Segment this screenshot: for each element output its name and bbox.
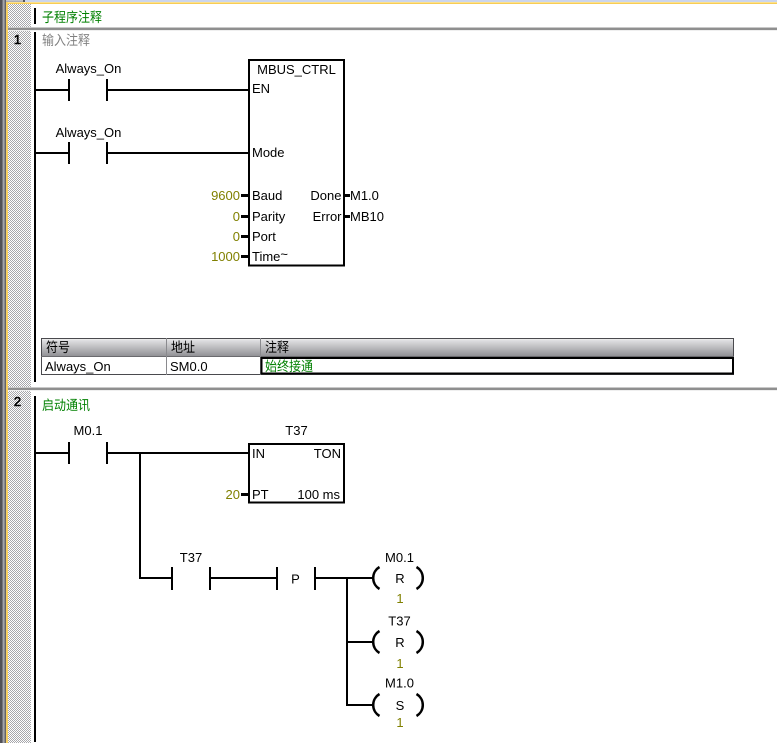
svg-text:EN: EN (252, 81, 270, 96)
wire branch to coil M1.0 (348, 704, 373, 706)
svg-text:Always_On: Always_On (56, 125, 122, 140)
svg-text:1: 1 (396, 715, 403, 730)
svg-text:S: S (396, 698, 405, 713)
svg-text:1000: 1000 (211, 249, 240, 264)
coil M0.1 left parenthesis (373, 567, 379, 589)
wire rail to contact 2 (36, 152, 68, 154)
wire contact T37 to contact P (211, 577, 276, 579)
table header 符号 (46, 340, 69, 353)
symbol table outer border (42, 339, 734, 375)
svg-text:1: 1 (396, 591, 403, 606)
contact T37 left bar (171, 567, 173, 590)
svg-text:100 ms: 100 ms (297, 487, 340, 502)
table header bottom line (41, 356, 734, 357)
svg-text:2: 2 (14, 394, 21, 409)
coil M1.0 right parenthesis (417, 694, 423, 716)
svg-text:R: R (395, 571, 404, 586)
Parity pin tick (241, 215, 248, 218)
svg-text:1: 1 (14, 32, 21, 47)
table column line 1 (166, 338, 167, 375)
svg-text:M0.1: M0.1 (74, 423, 103, 438)
wire contact P to coil M0.1 (316, 577, 373, 579)
wire contact M0.1 to IN pin (108, 452, 248, 454)
wire branch to coil T37 (348, 641, 373, 643)
coil M1.0 left parenthesis (373, 694, 379, 716)
network 1 left power rail (34, 32, 36, 382)
svg-text:Done: Done (310, 188, 341, 203)
network 2 left power rail (34, 396, 36, 742)
symbol table header background (42, 339, 734, 357)
selected comment cell border (262, 358, 734, 374)
contact T37 right bar (209, 567, 211, 590)
svg-text:Mode: Mode (252, 145, 285, 160)
contact 1 right bar (106, 79, 108, 101)
contact M0.1 left bar (68, 442, 70, 464)
svg-text:1: 1 (396, 656, 403, 671)
function block MBUS_CTRL outline (249, 60, 344, 266)
branch junction vertical wire (139, 452, 141, 578)
Baud pin tick (241, 194, 248, 197)
wire rail to contact M0.1 (36, 452, 68, 454)
wire contact 2 to Mode pin (108, 152, 248, 154)
Time pin tick (241, 255, 248, 258)
Port pin tick (241, 235, 248, 238)
Done pin tick (344, 194, 350, 197)
timer box T37 outline (249, 444, 344, 503)
svg-text:Baud: Baud (252, 188, 282, 203)
svg-text:0: 0 (233, 209, 240, 224)
contact 2 left bar (68, 142, 70, 164)
subroutine comment text 子程序注释 (43, 10, 102, 23)
contact P left bar (276, 567, 278, 590)
wire contact 1 to EN pin (108, 89, 248, 91)
coil M0.1 right parenthesis (417, 567, 423, 589)
svg-text:Time~: Time~ (252, 247, 288, 265)
svg-text:Always_On: Always_On (56, 61, 122, 76)
network 2 comment 启动通讯 (42, 398, 89, 411)
table column line 2 (260, 338, 261, 375)
svg-text:9600: 9600 (211, 188, 240, 203)
svg-text:Error: Error (313, 209, 343, 224)
svg-text:M1.0: M1.0 (385, 676, 414, 691)
subroutine comment marker bar (34, 8, 36, 24)
svg-text:0: 0 (233, 229, 240, 244)
svg-text:Always_On: Always_On (45, 359, 111, 374)
coil T37 right parenthesis (417, 631, 423, 653)
svg-text:MB10: MB10 (350, 209, 384, 224)
svg-text:P: P (291, 572, 300, 587)
svg-text:T37: T37 (388, 614, 410, 629)
svg-text:R: R (395, 635, 404, 650)
wire rail to contact 1 (36, 89, 68, 91)
svg-text:Port: Port (252, 229, 276, 244)
table cell 始终接通 (265, 359, 312, 372)
contact 1 left bar (68, 79, 70, 101)
svg-text:T37: T37 (285, 423, 307, 438)
table header 地址 (171, 340, 194, 352)
svg-text:MBUS_CTRL: MBUS_CTRL (257, 62, 336, 77)
coil T37 left parenthesis (373, 631, 379, 653)
svg-text:SM0.0: SM0.0 (170, 359, 208, 374)
wire branch elbow to contact T37 (139, 577, 172, 579)
svg-text:T37: T37 (180, 550, 202, 565)
svg-text:TON: TON (314, 446, 341, 461)
contact M0.1 right bar (106, 442, 108, 464)
contact P right bar (314, 567, 316, 590)
coil branch vertical wire (346, 577, 348, 706)
PT pin tick (241, 493, 248, 496)
svg-text:PT: PT (252, 487, 269, 502)
Error pin tick (344, 215, 350, 218)
svg-text:M0.1: M0.1 (385, 550, 414, 565)
network 1 comment 输入注释 (43, 33, 90, 46)
table header 注释 (266, 340, 289, 353)
contact 2 right bar (106, 142, 108, 164)
svg-text:M1.0: M1.0 (350, 188, 379, 203)
svg-text:IN: IN (252, 446, 265, 461)
svg-text:20: 20 (226, 487, 240, 502)
svg-text:Parity: Parity (252, 209, 286, 224)
